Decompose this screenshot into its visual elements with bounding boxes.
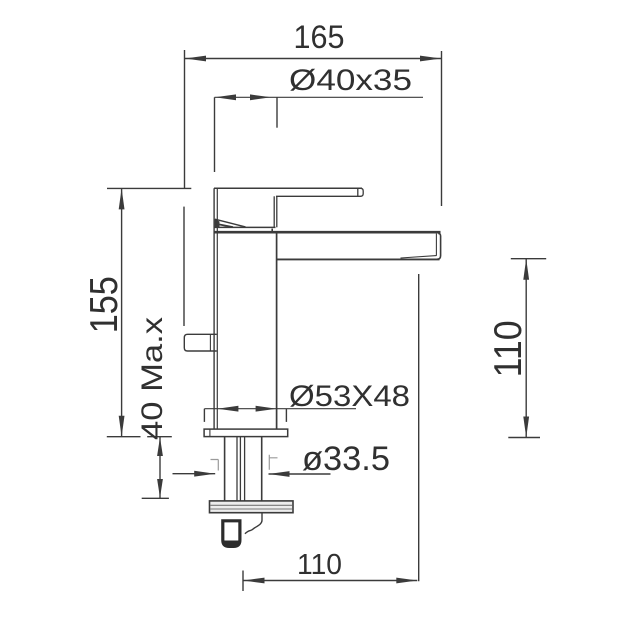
dim 40max top tick — [147, 436, 172, 438]
dim 155 line — [121, 188, 123, 436]
dim 155 arrow down — [119, 416, 125, 437]
dim 110 bottom arrow left — [244, 578, 265, 584]
dim 40x35 arrow left — [215, 94, 236, 100]
svg-text:165: 165 — [294, 19, 345, 55]
body right edge — [276, 232, 278, 429]
side knob — [184, 334, 217, 351]
hose stub — [245, 513, 262, 534]
svg-text:40 Ma.x: 40 Ma.x — [136, 317, 169, 440]
handle wedge upper diagonal — [215, 219, 246, 227]
dim 155 arrow up — [119, 188, 125, 209]
shank line 2 — [236, 437, 238, 501]
dim 110 right bottom tick — [508, 437, 540, 439]
dim 33.5 right arrow — [269, 471, 290, 477]
dim 53x48 right hook — [285, 409, 287, 422]
dim 110 right arrow down — [523, 417, 529, 438]
dim 110 bottom line — [243, 580, 417, 582]
nut flange bar — [210, 501, 294, 513]
handle wedge lower diagonal — [215, 224, 233, 228]
threaded tip — [223, 521, 240, 547]
dim 40max line — [159, 437, 161, 499]
flange inner tick — [209, 429, 211, 437]
body left edge inner — [216, 188, 218, 429]
dim 40x35 arrow right — [250, 94, 271, 100]
shank line 5 — [261, 437, 263, 501]
shank line 1 — [224, 437, 226, 501]
dim 53x48 left hook — [203, 409, 205, 422]
shank line 4 — [244, 437, 246, 501]
dim 110 right arrow up — [523, 259, 529, 280]
handle top edge — [214, 187, 362, 189]
svg-text:110: 110 — [487, 320, 530, 377]
handle joint vertical outer — [273, 196, 275, 227]
flange — [204, 429, 288, 437]
dim 33.5 left hook — [211, 460, 219, 471]
dim 40max arrow up — [157, 437, 163, 456]
threaded tip bottom cap — [224, 541, 240, 546]
handle joint vertical inner — [276, 196, 278, 227]
svg-text:Ø53X48: Ø53X48 — [289, 380, 410, 413]
dim 165 line — [185, 58, 441, 60]
collar line — [215, 226, 276, 228]
dim 165 extension line right — [441, 51, 443, 206]
svg-text:110: 110 — [297, 549, 342, 581]
handle tip cap — [358, 188, 363, 196]
dim 165 arrow left — [185, 56, 206, 62]
spout bottom edge — [277, 258, 440, 260]
handle wedge blob — [215, 219, 220, 227]
dim 33.5 right hook — [269, 455, 277, 470]
dim 165 arrow right — [420, 56, 441, 62]
side knob joint tick — [209, 335, 211, 351]
collar joint tick — [271, 229, 273, 233]
spout right end inner — [435, 234, 437, 256]
dim 33.5 left arrow — [194, 471, 215, 477]
dim 53x48 arrow right — [256, 406, 277, 412]
dim 110 right top tick — [511, 258, 546, 260]
dim 40x35 extension right — [276, 97, 278, 127]
body top / spout top thick line — [214, 231, 441, 234]
dim 110 bottom arrow right — [396, 578, 417, 584]
nut flange stripe 1 — [210, 504, 292, 506]
dim 40x35 line — [215, 96, 424, 98]
dim 40max arrow down — [157, 479, 163, 498]
body left edge outer — [213, 188, 215, 429]
svg-text:Ø40x35: Ø40x35 — [289, 64, 412, 97]
dim 53x48 arrow left — [217, 406, 238, 412]
dim 33.5 left leader — [173, 473, 216, 475]
shank line 3 — [239, 437, 241, 501]
dim 165 extension line left — [184, 50, 186, 189]
spout inner lip diagonal — [401, 256, 437, 258]
nut flange stripe 2 — [210, 508, 292, 510]
dim 53x48 line — [204, 408, 356, 410]
dim 40x35 extension left — [214, 97, 216, 172]
dim 155 bottom tick — [107, 436, 141, 438]
dim 33.5 right leader — [269, 473, 331, 475]
dim 110 bottom left tick — [242, 571, 244, 592]
dim 110 right line — [525, 259, 527, 438]
svg-text:ø33.5: ø33.5 — [302, 440, 390, 478]
extension segment left of body — [183, 207, 185, 326]
dim 110 bottom extension right — [418, 274, 420, 581]
svg-text:155: 155 — [83, 276, 126, 333]
dim 155 top tick — [107, 187, 191, 189]
spout right end outer — [437, 234, 440, 260]
dim 40max bottom tick — [142, 497, 169, 499]
handle underside — [276, 195, 358, 197]
